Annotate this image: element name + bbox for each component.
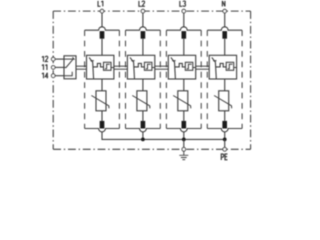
wire L3 terminal to module top [183, 11, 185, 27]
control box to unit edge stub (pole 4) [234, 67, 237, 69]
linkage bus pole 3 to pole 4 [196, 65, 210, 67]
impulse waveform link (pole 2) [134, 63, 145, 67]
varistor MOV (pole 3) [178, 91, 188, 111]
wire disconnector to varistor (pole 4) [224, 79, 226, 91]
plug-in contact blade top (pole 1) [100, 31, 105, 39]
module 4 dashed left side [206, 30, 208, 128]
wire varistor to bottom plug (pole 2) [142, 111, 144, 121]
module 3 top edge with wire-entry arc [166, 27, 201, 30]
module 4 bottom edge with wire-exit arc [207, 129, 242, 132]
wire varistor to bottom plug (pole 4) [224, 111, 226, 121]
module 1 top edge with wire-entry arc [85, 27, 120, 30]
wire pole 1 down and PE collecting bus [102, 132, 225, 140]
changeover blade 11-12 [66, 59, 74, 68]
wire plug to disconnector box (pole 1) [101, 39, 103, 56]
terminal circle 12 [51, 57, 55, 61]
dynamic-control box (pole 3) [185, 62, 193, 70]
module 1 bottom edge with wire-exit arc [85, 129, 120, 132]
junction pole 3 / PE bus [182, 138, 186, 142]
varistor diagonal stroke (pole 1) [91, 96, 109, 109]
varistor diagonal stroke (pole 4) [214, 96, 232, 109]
terminal circle PE [223, 148, 227, 152]
varistor diagonal stroke (pole 2) [132, 96, 150, 109]
disconnector switch blade (pole 3) [171, 57, 176, 79]
wire terminal 12 to contact box [55, 58, 64, 60]
plug-in contact blade bottom (pole 1) [100, 121, 105, 129]
wire terminal 14 to contact box [55, 75, 64, 77]
wire bus down to PE terminal [224, 139, 226, 147]
wire plug to disconnector box (pole 2) [142, 39, 144, 56]
thermal trip tick (pole 3) [172, 60, 175, 62]
terminal circle N [223, 9, 227, 13]
module 1 dashed right side [118, 30, 120, 128]
wire plug to disconnector box (pole 3) [183, 39, 185, 56]
junction pole 4 / PE bus [223, 138, 227, 142]
module 2 dashed right side [159, 30, 161, 128]
step curve inside control box (pole 1) [105, 64, 110, 69]
dynamic-control box (pole 2) [144, 62, 152, 70]
thermal trip tick (pole 4) [213, 60, 216, 62]
dynamic-control box (pole 4) [226, 62, 234, 70]
linkage bus pole 1 to pole 2 [114, 65, 128, 67]
terminal circle L1 [100, 9, 104, 13]
junction pole 2 / PE bus [141, 138, 145, 142]
plug-in contact blade bottom (pole 2) [141, 121, 146, 129]
plug-in contact blade top (pole 2) [141, 31, 146, 39]
module 1 dashed left side [84, 30, 86, 128]
control box to unit edge stub (pole 3) [193, 67, 196, 69]
thermal trip tick (pole 2) [131, 60, 134, 62]
disconnector switch blade (pole 4) [212, 57, 217, 79]
wire terminal 11 to contact box [55, 66, 64, 68]
impulse waveform link (pole 1) [93, 63, 104, 67]
module 4 top edge with wire-entry arc [207, 27, 242, 30]
varistor MOV (pole 2) [137, 91, 147, 111]
module 2 top edge with wire-entry arc [126, 27, 161, 30]
disconnector switch blade (pole 2) [130, 57, 135, 79]
plug-in contact blade bottom (pole 3) [182, 121, 187, 129]
thermal disconnector unit U4 [209, 55, 236, 79]
thermal disconnector unit U3 [168, 55, 195, 79]
plug-in contact blade top (pole 4) [222, 31, 227, 39]
module 3 bottom edge with wire-exit arc [166, 129, 201, 132]
terminal circle 11 [51, 66, 55, 70]
thermal disconnector unit U2 [127, 55, 154, 79]
label N [222, 1, 225, 7]
contact NC line 12 [64, 58, 73, 60]
wire pole 3 to PE bus [183, 132, 185, 140]
impulse waveform link (pole 3) [175, 63, 186, 67]
remote signalling contact box [64, 56, 76, 79]
earth symbol [179, 151, 188, 159]
wire L2 terminal to module top [142, 11, 144, 27]
disconnector switch blade (pole 1) [89, 57, 94, 79]
step curve inside control box (pole 4) [228, 64, 233, 69]
wire N terminal to module top [224, 11, 226, 27]
enclosure boundary bottom (dash-dot) [53, 148, 250, 150]
label L1 [98, 1, 100, 6]
label 14 [42, 73, 44, 79]
enclosure boundary left (dash-dot) [52, 11, 54, 149]
enclosure boundary top (dash-dot) [53, 10, 250, 12]
label PE [221, 154, 223, 160]
label 11 [42, 64, 44, 70]
label L3 [180, 1, 182, 6]
control box to unit edge stub (pole 2) [152, 67, 155, 69]
varistor MOV (pole 4) [219, 91, 229, 111]
thermal disconnector unit U1 [87, 55, 114, 79]
wire bus down to earth terminal [183, 139, 185, 147]
dynamic-control box (pole 1) [104, 62, 112, 70]
varistor diagonal stroke (pole 3) [173, 96, 191, 109]
plug-in contact blade top (pole 3) [182, 31, 187, 39]
step curve inside control box (pole 3) [187, 64, 192, 69]
contact NO line 14 with stub [64, 72, 72, 76]
circuit schematic: 4-pole surge protective device (varistor SPD with thermal disconnectors and remote signalling contact) [0, 0, 292, 164]
control box to unit edge stub (pole 1) [111, 67, 114, 69]
wire disconnector to varistor (pole 3) [183, 79, 185, 91]
wire varistor to bottom plug (pole 1) [101, 111, 103, 121]
thermal trip tick (pole 1) [90, 60, 93, 62]
terminal circle 14 [51, 74, 55, 78]
step curve inside control box (pole 2) [146, 64, 151, 69]
wire pole 4 to PE bus [224, 132, 226, 140]
wire pole 2 to PE bus [142, 132, 144, 140]
module 3 dashed left side [165, 30, 167, 128]
wire varistor to bottom plug (pole 3) [183, 111, 185, 121]
terminal circle L2 [141, 9, 145, 13]
terminal circle earth [182, 148, 186, 152]
wire plug to disconnector box (pole 4) [224, 39, 226, 56]
module 3 dashed right side [200, 30, 202, 128]
module 4 dashed right side [241, 30, 243, 128]
linkage bus signalling box to pole 1 [76, 65, 87, 67]
terminal circle L3 [182, 9, 186, 13]
module 2 bottom edge with wire-exit arc [126, 129, 161, 132]
label L2 [139, 1, 141, 6]
wire disconnector to varistor (pole 2) [142, 79, 144, 91]
module 2 dashed left side [125, 30, 127, 128]
enclosure boundary right (dash-dot) [250, 11, 252, 149]
wire disconnector to varistor (pole 1) [101, 79, 103, 91]
blade tip tick [72, 57, 74, 59]
varistor MOV (pole 1) [96, 91, 106, 111]
impulse waveform link (pole 4) [216, 63, 227, 67]
wire L1 terminal to module top [101, 11, 103, 27]
contact common stub 11 [64, 66, 66, 68]
linkage bus pole 2 to pole 3 [155, 65, 169, 67]
plug-in contact blade bottom (pole 4) [222, 121, 227, 129]
label 12 [42, 56, 44, 62]
